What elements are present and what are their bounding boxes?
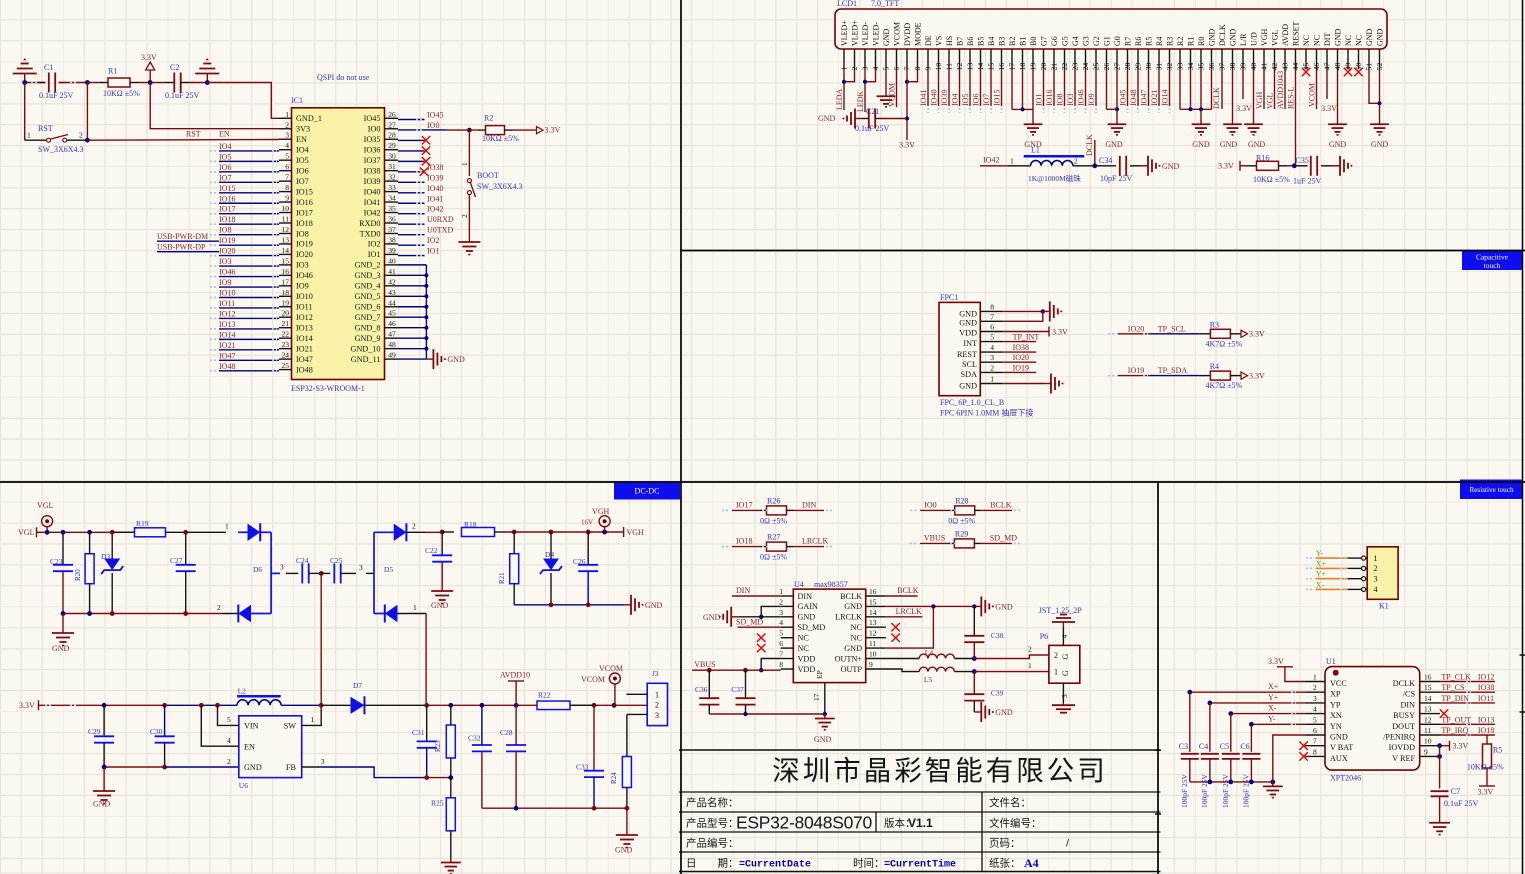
svg-text:GND: GND <box>93 800 111 809</box>
pin 4 IO4 <box>279 149 292 151</box>
pin4 wire <box>201 705 239 746</box>
svg-text:IO38: IO38 <box>427 163 443 172</box>
svg-text:VDD: VDD <box>798 665 816 674</box>
ground <box>1379 120 1381 124</box>
pin 5 YN <box>1305 723 1325 725</box>
svg-text:IO20: IO20 <box>219 247 235 256</box>
svg-text:R5: R5 <box>1493 746 1502 755</box>
svg-text:ESP32-8048S070: ESP32-8048S070 <box>736 813 872 833</box>
pin 7 V BAT <box>1305 745 1325 747</box>
svg-text:VDD: VDD <box>798 654 816 663</box>
pin 11 /PENIRQ <box>1420 734 1440 736</box>
svg-text:C29: C29 <box>88 727 101 736</box>
svg-text:FPC_6P_1.0_CL_B: FPC_6P_1.0_CL_B <box>940 398 1004 407</box>
svg-text:R21: R21 <box>498 572 506 584</box>
svg-text:R5: R5 <box>1145 37 1154 46</box>
wire vdd7 <box>761 659 781 671</box>
wire VCOM <box>1316 69 1318 109</box>
pin 40 GND_2 <box>385 264 399 266</box>
pin 44 GND_6 <box>385 306 399 308</box>
svg-text:16: 16 <box>282 267 290 276</box>
svg-text:IO10: IO10 <box>219 288 235 297</box>
net 3.3V <box>1326 69 1328 99</box>
wire <box>442 531 454 533</box>
wire <box>24 83 26 141</box>
svg-text:B4: B4 <box>987 37 996 46</box>
wire net IO47 <box>1148 69 1150 106</box>
svg-text:3: 3 <box>990 353 994 362</box>
svg-text:VCC: VCC <box>1330 679 1347 688</box>
node 3V3 <box>148 80 153 85</box>
svg-text:10: 10 <box>869 650 877 659</box>
svg-text:IO17: IO17 <box>736 500 752 509</box>
svg-text:0Ω ±5%: 0Ω ±5% <box>948 516 975 525</box>
svg-text:DCLK: DCLK <box>1212 87 1221 109</box>
svg-text:IO20: IO20 <box>296 250 313 259</box>
svg-text:GND: GND <box>959 381 977 390</box>
svg-text:IO45: IO45 <box>1119 90 1128 106</box>
net 3.3V <box>1242 69 1244 99</box>
svg-text:IO6: IO6 <box>219 163 231 172</box>
svg-text:0Ω ±5%: 0Ω ±5% <box>760 553 787 562</box>
svg-text:IO38: IO38 <box>1013 343 1029 352</box>
svg-text:R19: R19 <box>136 519 149 528</box>
resistor R3 4K7 <box>1210 329 1230 338</box>
pin 9 V REF <box>1420 755 1440 757</box>
svg-text:FPC 6PIN 1.0MM 抽屉下接: FPC 6PIN 1.0MM 抽屉下接 <box>940 408 1033 418</box>
svg-text:IO15: IO15 <box>219 184 235 193</box>
pin 14 LRCLK <box>866 616 886 618</box>
wire DVDD <box>906 69 908 140</box>
svg-text:TP_SDA: TP_SDA <box>1158 366 1188 375</box>
ground <box>1141 165 1148 167</box>
no-connect busy <box>1440 709 1448 717</box>
svg-text:EN: EN <box>296 135 307 144</box>
svg-text:U/D: U/D <box>1250 32 1259 46</box>
wire net IO4 <box>959 69 961 106</box>
svg-text:VGH: VGH <box>1260 28 1269 46</box>
svg-text:IO14: IO14 <box>219 330 235 339</box>
wire <box>398 234 425 236</box>
svg-text:NC: NC <box>851 634 863 643</box>
svg-text:1: 1 <box>413 603 417 612</box>
svg-text:X-: X- <box>1316 580 1325 589</box>
svg-text:IO1: IO1 <box>368 250 381 259</box>
diode D7 <box>351 697 365 714</box>
wire bottom rail <box>63 613 222 615</box>
wire net TP_OUT <box>1440 723 1495 725</box>
svg-text:1uF 25V: 1uF 25V <box>1293 177 1321 186</box>
svg-text:BCLK: BCLK <box>840 592 862 601</box>
svg-text:XPT2046: XPT2046 <box>1330 774 1361 783</box>
svg-text:7.0_TFT: 7.0_TFT <box>871 0 899 8</box>
svg-text:4: 4 <box>1374 585 1378 594</box>
svg-text:10pF 25V: 10pF 25V <box>1100 174 1132 183</box>
svg-text:IO8: IO8 <box>296 229 309 238</box>
svg-text:2: 2 <box>460 214 469 218</box>
no-connect <box>757 634 765 642</box>
svg-text:C21: C21 <box>866 107 879 116</box>
svg-text:RESET: RESET <box>1292 21 1301 46</box>
wire LEDK <box>864 69 866 112</box>
svg-text:G: G <box>1061 670 1070 676</box>
svg-text:R25: R25 <box>431 799 444 808</box>
svg-text:3: 3 <box>1060 694 1069 698</box>
wire rail out <box>365 704 427 706</box>
pin 1 GND_1 <box>279 117 292 119</box>
wire gnd52 <box>1379 69 1381 120</box>
svg-text:7: 7 <box>285 173 289 182</box>
svg-text:DE: DE <box>924 35 933 46</box>
svg-text:12: 12 <box>869 629 877 638</box>
wire <box>1199 375 1210 377</box>
svg-text:GND: GND <box>1220 140 1238 149</box>
svg-text:LRCLK: LRCLK <box>835 613 862 622</box>
svg-text:IO41: IO41 <box>427 194 443 203</box>
capacitor C5 100pF <box>1230 714 1232 752</box>
power 3.3V <box>146 62 155 70</box>
svg-text:产品编号：: 产品编号： <box>686 837 739 850</box>
wire net AVDD1043 <box>1284 69 1286 109</box>
svg-text:IO21: IO21 <box>296 344 313 353</box>
wire <box>150 82 166 84</box>
svg-text:13: 13 <box>282 235 290 244</box>
svg-text:touch: touch <box>1484 261 1501 270</box>
svg-text:IO18: IO18 <box>219 215 235 224</box>
svg-text:3: 3 <box>359 563 363 572</box>
pin 1 DIN <box>781 595 794 597</box>
pin 38 IO2 <box>385 243 399 245</box>
no-connect X <box>422 157 430 165</box>
resistor R21 <box>510 554 519 584</box>
svg-text:IO48: IO48 <box>219 362 235 371</box>
svg-text:GND_5: GND_5 <box>355 292 381 301</box>
svg-text:IO9: IO9 <box>296 282 309 291</box>
svg-text:IO48: IO48 <box>296 365 313 374</box>
svg-text:R16: R16 <box>1256 154 1269 163</box>
svg-text:V BAT: V BAT <box>1330 743 1353 752</box>
svg-text:GND_6: GND_6 <box>355 303 381 312</box>
svg-text:3: 3 <box>321 757 325 766</box>
capacitor C4 100pF <box>1209 703 1211 752</box>
svg-text:IO42: IO42 <box>364 208 381 217</box>
wire net TP_IRQ <box>1440 734 1495 736</box>
svg-text:3: 3 <box>280 563 284 572</box>
pin 8 VDD <box>781 668 794 670</box>
wire net IO12 <box>219 317 279 319</box>
svg-text:VLED-: VLED- <box>872 22 881 46</box>
net 3.3V iovdd <box>1440 745 1450 747</box>
pin 10 OUTN+ <box>866 658 886 660</box>
pin 7 IO7 <box>279 180 292 182</box>
svg-text:DIN: DIN <box>736 586 750 595</box>
pin 27 IO0 <box>385 128 399 130</box>
svg-text:IO48: IO48 <box>1129 90 1138 106</box>
svg-text:EN: EN <box>244 743 255 752</box>
pin 5 IO5 <box>279 159 292 161</box>
svg-text:C37: C37 <box>731 685 744 694</box>
wire vbus rail <box>692 669 781 671</box>
svg-text:IO46: IO46 <box>219 268 235 277</box>
wire <box>186 531 226 533</box>
wire net IO40 <box>938 69 940 106</box>
svg-text:1: 1 <box>285 110 289 119</box>
wire <box>130 82 138 84</box>
svg-text:IO14: IO14 <box>1161 90 1170 106</box>
svg-text:4: 4 <box>1313 705 1317 714</box>
svg-text:2: 2 <box>217 603 221 612</box>
wire net IO19 <box>219 244 279 246</box>
svg-text:文件编号：: 文件编号： <box>989 817 1042 830</box>
svg-text:10KΩ ±5%: 10KΩ ±5% <box>1253 175 1290 184</box>
capacitor C1 <box>48 73 50 93</box>
svg-text:GND: GND <box>1229 28 1238 46</box>
svg-text:14: 14 <box>1424 694 1432 703</box>
svg-text:B5: B5 <box>977 37 986 46</box>
svg-text:IO11: IO11 <box>296 303 313 312</box>
pin 41 GND_3 <box>385 274 399 276</box>
svg-text:32: 32 <box>388 173 396 182</box>
svg-text:C24: C24 <box>296 556 309 565</box>
pin 14 DIN <box>1420 702 1440 704</box>
svg-text:36: 36 <box>388 215 396 224</box>
svg-text:IO9: IO9 <box>219 278 231 287</box>
section divider horizontal right <box>681 250 1525 252</box>
svg-text:U4: U4 <box>794 580 804 589</box>
svg-text:GND: GND <box>959 319 977 328</box>
svg-text:DC-DC: DC-DC <box>635 487 660 496</box>
svg-text:IO18: IO18 <box>736 537 752 546</box>
pin 39 IO1 <box>385 253 399 255</box>
wire gnd bus <box>1190 781 1273 783</box>
svg-text:GND_2: GND_2 <box>355 261 381 270</box>
svg-text:IO3: IO3 <box>219 257 231 266</box>
border tick <box>1520 711 1525 713</box>
svg-text:1: 1 <box>1054 668 1058 677</box>
wire net IO9 <box>1095 69 1097 106</box>
svg-text:GND: GND <box>615 846 633 855</box>
svg-text:LRCLK: LRCLK <box>896 607 922 616</box>
svg-text:R18: R18 <box>464 520 477 529</box>
svg-text:DOUT: DOUT <box>1392 722 1415 731</box>
wire <box>787 546 794 548</box>
svg-text:IO5: IO5 <box>219 152 231 161</box>
svg-text:C3: C3 <box>1179 742 1188 751</box>
svg-text:3.3V: 3.3V <box>1453 742 1469 751</box>
svg-text:IO21: IO21 <box>1150 90 1159 106</box>
svg-text:C31: C31 <box>412 728 425 737</box>
wire net IO1 <box>1043 69 1045 106</box>
svg-text:IO38: IO38 <box>1478 683 1494 692</box>
svg-text:IO19: IO19 <box>1128 366 1144 375</box>
svg-text:IO37: IO37 <box>364 156 381 165</box>
svg-text:0.1uF 25V: 0.1uF 25V <box>39 91 73 100</box>
svg-text:5: 5 <box>227 715 231 724</box>
no-connect <box>1299 752 1307 760</box>
wire 3.3V to 3V3 pin <box>150 83 279 129</box>
svg-text:2: 2 <box>227 757 231 766</box>
svg-text:5: 5 <box>990 333 994 342</box>
wire rail <box>47 531 135 533</box>
svg-text:/CS: /CS <box>1403 690 1416 699</box>
svg-text:14: 14 <box>282 246 290 255</box>
svg-text:IO20: IO20 <box>1013 353 1029 362</box>
svg-text:R2: R2 <box>484 114 493 123</box>
svg-text:X+: X+ <box>1316 559 1327 568</box>
svg-text:RST: RST <box>38 124 53 133</box>
pin 35 IO42 <box>385 212 399 214</box>
svg-text:3V3: 3V3 <box>296 125 310 134</box>
svg-text:3: 3 <box>779 608 783 617</box>
svg-text:IO17: IO17 <box>219 205 235 214</box>
pin 34 IO41 <box>385 201 399 203</box>
wire net IO13 <box>219 328 279 330</box>
wire <box>398 181 425 183</box>
pin 15 GND <box>866 605 886 607</box>
svg-text:3.3V: 3.3V <box>1268 657 1284 666</box>
svg-text:C36: C36 <box>695 685 708 694</box>
wire gnd7 <box>1003 311 1043 321</box>
svg-text:IO0: IO0 <box>427 121 439 130</box>
svg-text:SD_MD: SD_MD <box>990 533 1017 542</box>
wire <box>1230 333 1240 335</box>
wire SW node vertical <box>320 573 322 705</box>
svg-text:R3: R3 <box>1210 320 1219 329</box>
node EN-RC <box>22 80 27 85</box>
pin 46 GND_8 <box>385 327 399 329</box>
svg-text:L1: L1 <box>1031 146 1040 155</box>
svg-text:VCOM: VCOM <box>888 83 897 107</box>
no-connect <box>1344 68 1352 76</box>
svg-text:3.3V: 3.3V <box>1218 161 1234 170</box>
svg-text:Y+: Y+ <box>1268 693 1279 702</box>
wire <box>112 531 134 533</box>
svg-text:TP_INT: TP_INT <box>1013 333 1040 342</box>
wire net TP_CS <box>1440 691 1495 693</box>
svg-text:31: 31 <box>388 162 396 171</box>
svg-text:NC: NC <box>798 634 810 643</box>
svg-text:FB: FB <box>286 763 297 772</box>
svg-text:C34: C34 <box>1099 156 1112 165</box>
svg-text:3.3V: 3.3V <box>1321 104 1337 113</box>
wire <box>865 69 876 82</box>
svg-text:IO47: IO47 <box>296 355 313 364</box>
svg-text:C32: C32 <box>468 734 481 743</box>
svg-text:K1: K1 <box>1379 602 1389 611</box>
wire <box>281 704 321 706</box>
svg-text:1: 1 <box>1010 157 1014 166</box>
svg-text:SDA: SDA <box>961 370 977 379</box>
svg-text:10: 10 <box>282 204 290 213</box>
svg-text:27: 27 <box>388 120 396 129</box>
wire gnd38 <box>1232 69 1234 120</box>
ground <box>450 858 452 863</box>
pin 45 GND_7 <box>385 316 399 318</box>
svg-text:IO40: IO40 <box>930 90 939 106</box>
node <box>85 138 90 143</box>
pin 32 IO39 <box>385 180 399 182</box>
svg-text:VCOM: VCOM <box>599 664 623 673</box>
svg-text:NC: NC <box>798 644 810 653</box>
wire <box>760 509 767 511</box>
svg-text:/PENIRQ: /PENIRQ <box>1383 733 1415 742</box>
pin 31 IO38 <box>385 170 399 172</box>
svg-text:IO39: IO39 <box>364 177 381 186</box>
resistor R25 <box>446 798 455 831</box>
svg-text:IO40: IO40 <box>427 184 443 193</box>
wire MODE <box>907 69 918 82</box>
wire net IO14 <box>219 338 279 340</box>
svg-text:2: 2 <box>655 701 659 710</box>
svg-text:7: 7 <box>1313 737 1317 746</box>
wire gnd51 <box>1369 69 1380 103</box>
svg-text:IO47: IO47 <box>1140 90 1149 106</box>
svg-text:R4: R4 <box>1155 37 1164 46</box>
svg-text:C28: C28 <box>500 728 513 737</box>
svg-text:0.1uF 25V: 0.1uF 25V <box>855 124 889 133</box>
wire net IO5 <box>969 69 971 106</box>
svg-text:VGH: VGH <box>592 507 610 516</box>
resistor R20 <box>85 554 94 584</box>
svg-text:DCLK: DCLK <box>1085 134 1094 156</box>
svg-text:12: 12 <box>282 225 290 234</box>
svg-text:VGL: VGL <box>1271 29 1280 46</box>
wire net X- <box>1231 713 1305 715</box>
ground <box>426 358 433 360</box>
svg-text:GND: GND <box>882 28 891 46</box>
svg-text:LRCLK: LRCLK <box>802 537 828 546</box>
capacitor C7 <box>1431 790 1449 792</box>
svg-text:GND: GND <box>995 602 1013 611</box>
svg-text:2: 2 <box>779 597 783 606</box>
svg-text:IO19: IO19 <box>219 236 235 245</box>
pin 6 IO6 <box>279 170 292 172</box>
svg-text:OUTN+: OUTN+ <box>835 654 863 663</box>
svg-text:NC: NC <box>1355 35 1364 46</box>
svg-text:J3: J3 <box>652 669 659 678</box>
resistor R5 <box>1486 735 1488 747</box>
wire net Y+ <box>1316 578 1348 580</box>
pin 49 GND_11 <box>385 358 399 360</box>
svg-text:D7: D7 <box>353 681 362 690</box>
svg-text:47: 47 <box>388 330 396 339</box>
svg-text:R27: R27 <box>767 533 780 542</box>
wire net IO8 <box>1064 69 1066 106</box>
wire D5 pin1 down <box>425 614 427 706</box>
wire net X- <box>1316 588 1348 590</box>
wire net IO41 <box>927 69 929 106</box>
svg-text:1: 1 <box>655 690 659 699</box>
ground <box>468 237 470 242</box>
wire <box>787 509 794 511</box>
svg-text:TP_DIN: TP_DIN <box>1441 694 1469 703</box>
ground <box>824 714 826 719</box>
svg-text:R29: R29 <box>955 529 968 538</box>
svg-text:D5: D5 <box>384 565 393 574</box>
wire <box>398 150 425 152</box>
svg-text:24: 24 <box>282 351 290 360</box>
pin 47 GND_9 <box>385 337 399 339</box>
svg-text:R0: R0 <box>1197 37 1206 46</box>
svg-text:AUX: AUX <box>1330 754 1348 763</box>
svg-text:3.3V: 3.3V <box>1236 104 1252 113</box>
svg-text:U0TXD: U0TXD <box>427 226 453 235</box>
svg-text:C4: C4 <box>1199 742 1208 751</box>
svg-text:2: 2 <box>1054 651 1058 660</box>
wire net IO6 <box>219 171 279 173</box>
svg-text:VLED-: VLED- <box>861 22 870 46</box>
svg-text:IOVDD: IOVDD <box>1389 743 1415 752</box>
